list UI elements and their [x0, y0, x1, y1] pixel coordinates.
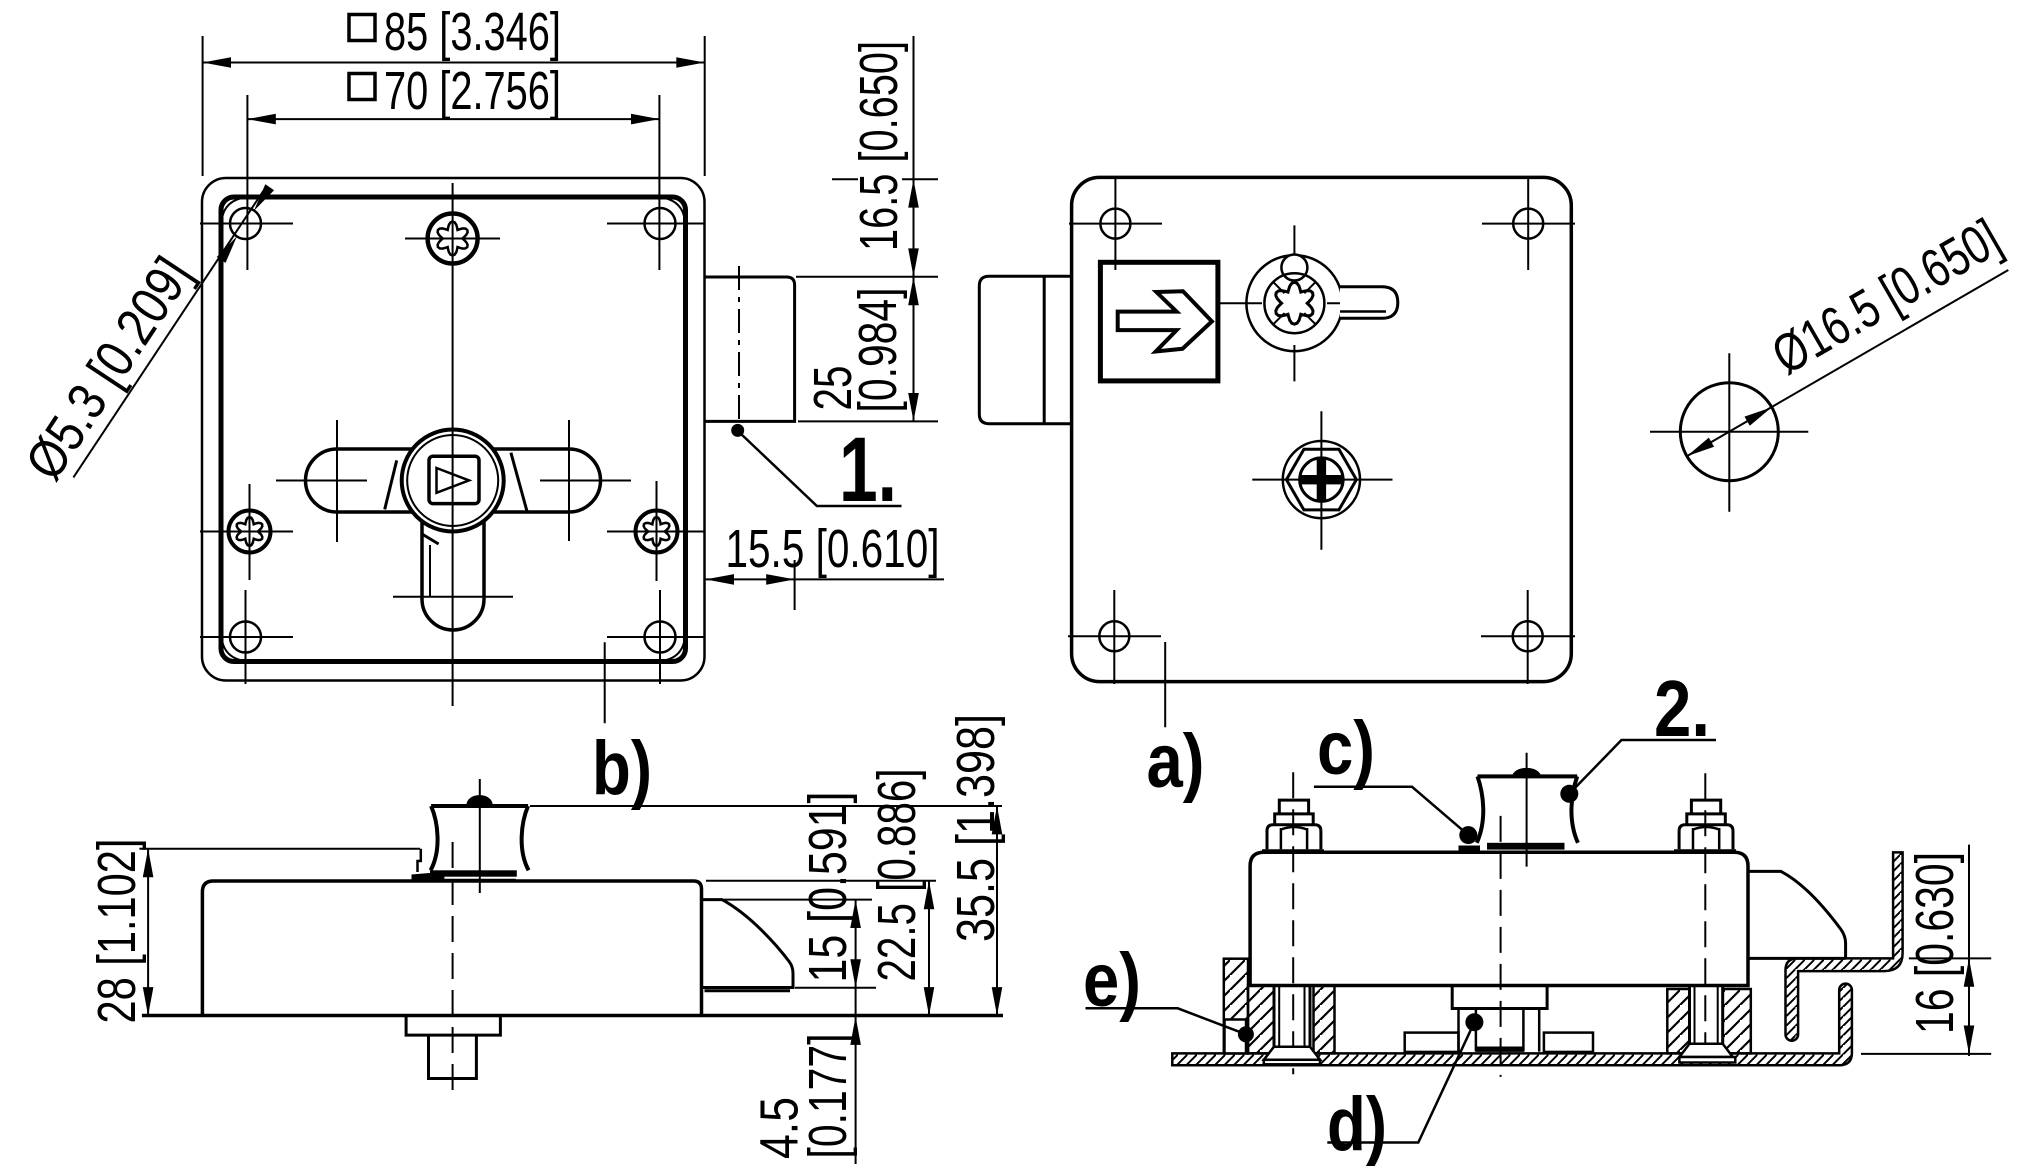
dimension 5.3 leader [73, 184, 274, 477]
dimension 35.5 text [946, 714, 1006, 942]
dimension 16.5 extension ticks [832, 178, 938, 180]
door sheet hatched [1786, 852, 1903, 1040]
rear corner hole top-left [1069, 177, 1162, 270]
svg-text:d): d) [1327, 1082, 1387, 1167]
bolt side profile [1748, 871, 1846, 958]
rear screw crosshair [1252, 411, 1392, 550]
drive shaft inner circle [407, 435, 498, 526]
svg-text:22.5 [0.886]: 22.5 [0.886] [867, 769, 927, 982]
dimension sq85 text [349, 2, 561, 62]
cylinder torx star [1274, 282, 1316, 324]
dimension 15.5 text [726, 519, 940, 579]
dimension sq85 extension lines [203, 36, 705, 176]
dimension [0.984] text [848, 288, 908, 413]
side bolt bottom extension [795, 987, 876, 989]
dimension 16.5 dia leader [1687, 270, 2009, 456]
retaining clip (e) white [1225, 1020, 1247, 1054]
label a leader [1164, 642, 1166, 727]
dimension 16 line [1964, 845, 1975, 1056]
svg-text:2.: 2. [1654, 664, 1710, 753]
vertical centerline [452, 183, 454, 706]
label e text [1083, 938, 1141, 1023]
cylinder inner circle [1264, 273, 1324, 333]
rear screw hex [1286, 449, 1356, 510]
side bolt top extension [724, 899, 872, 901]
dimension 35.5 line [992, 806, 1003, 1016]
dimension 16 text [1905, 852, 1965, 1034]
label a text [1147, 719, 1205, 804]
dimension 35.5 extension top [530, 805, 1002, 807]
housing body [1250, 852, 1748, 985]
svg-text:[0.177]: [0.177] [798, 1034, 858, 1159]
rear corner hole bottom-right [1481, 590, 1575, 684]
label d text [1327, 1082, 1387, 1167]
dimension 28 text [87, 839, 147, 1024]
label e leader [1086, 1008, 1254, 1042]
centre bracket (d) [1405, 986, 1593, 1052]
rear screw outer circle [1283, 441, 1360, 518]
knob spool section [1459, 768, 1578, 853]
svg-text:35.5 [1.398]: 35.5 [1.398] [946, 714, 1006, 942]
svg-text:15 [0.591]: 15 [0.591] [798, 792, 858, 983]
dimension 15 text [798, 792, 858, 983]
dimension sq85 line [203, 57, 705, 68]
svg-text:b): b) [592, 726, 652, 811]
left screw countersunk head [1264, 1047, 1320, 1065]
svg-text:70 [2.756]: 70 [2.756] [384, 61, 561, 121]
dimension 28 extension top [139, 848, 420, 850]
svg-text:[0.984]: [0.984] [848, 288, 908, 413]
corner hole top-left [200, 208, 293, 239]
knob axis solid [1526, 753, 1528, 867]
svg-text:85 [3.346]: 85 [3.346] [384, 2, 561, 62]
arrow direction square [1100, 262, 1218, 381]
label 1. leader [731, 424, 901, 506]
drive shaft outer circle [402, 430, 504, 532]
knob centerline [479, 779, 481, 893]
orientation triangle [437, 468, 470, 493]
rear body outline [1072, 177, 1572, 681]
spacer columns right screw hatched [1667, 989, 1750, 1053]
dimension 4.5 text [750, 1097, 810, 1159]
dimension sq70 extension lines (through top mounting holes) [247, 95, 659, 270]
dimension sq70 text [349, 61, 561, 121]
dimension 16 extension lines [1861, 958, 1991, 1054]
bottom stud collar [406, 1016, 500, 1036]
left nut stack [1262, 800, 1324, 851]
svg-text:a): a) [1147, 719, 1205, 804]
bolt centerline dash-dot [738, 266, 740, 436]
label 1. text [839, 419, 897, 521]
lever facet line right [511, 453, 527, 511]
cylinder crosshair [1218, 225, 1367, 381]
dimension 5.3 text [14, 247, 203, 490]
dimension 16.5 dia text [1762, 208, 2010, 386]
dimension 22.5 text [867, 769, 927, 982]
spacer sliver left hatched [1248, 986, 1274, 1054]
svg-text:e): e) [1083, 938, 1141, 1023]
rear corner hole top-right [1482, 177, 1575, 270]
corner hole bottom-right [607, 590, 705, 684]
cover plate inner outline [221, 197, 686, 662]
locking bolt (down) [393, 521, 513, 631]
torx screw lower-right [607, 481, 704, 581]
lever facet line left [385, 460, 397, 509]
knob spool outline [431, 806, 529, 870]
right screw countersunk head [1679, 1044, 1735, 1063]
svg-text:1.: 1. [839, 419, 897, 521]
right nut stack [1674, 800, 1736, 851]
spacer block left hatched [1224, 959, 1248, 1054]
svg-text:c): c) [1317, 706, 1375, 791]
lever end crosshair left [336, 420, 338, 542]
cylinder tab [1340, 287, 1398, 319]
left screw shaft [1274, 986, 1310, 1047]
dimension sq70 line [247, 114, 659, 125]
centerline over shaft [452, 429, 454, 533]
detail circle crosshair [1650, 353, 1808, 511]
dimension 22.5 extension top [706, 880, 936, 882]
stud centerline dashed [452, 842, 454, 1090]
knob top cap [467, 795, 493, 805]
corner hole bottom-left [200, 590, 293, 684]
label b leader [604, 642, 606, 723]
right screw shaft [1690, 986, 1723, 1044]
bottom stud [429, 1035, 477, 1078]
svg-text:28 [1.102]: 28 [1.102] [87, 839, 147, 1024]
right stud centerline dashed [1704, 773, 1706, 1066]
mounting plate hatched [1172, 984, 1852, 1066]
horizontal centerline segments [276, 480, 631, 482]
rear screw inner circle [1300, 458, 1343, 501]
torx screw top [405, 214, 500, 264]
bolt protruding left [979, 276, 1071, 423]
swing lever (bone) [306, 449, 601, 512]
arrow symbol [1118, 291, 1212, 351]
rear corner hole bottom-left [1068, 590, 1161, 684]
svg-text:15.5 [0.610]: 15.5 [0.610] [726, 519, 940, 579]
side body bottom edge [142, 1014, 1003, 1018]
torx screw lower-left [200, 484, 293, 580]
side bolt profile [702, 900, 794, 991]
corner hole top-right [607, 208, 705, 239]
dimension [0.177] text [798, 1034, 858, 1159]
knob centerline dashed [1500, 816, 1502, 1077]
dimension 16.5/25 shared line [908, 36, 919, 421]
dimension 28 line [143, 849, 154, 1016]
bolt protruding right [705, 277, 795, 421]
detail circle [1680, 383, 1778, 481]
retaining clip side [412, 849, 445, 882]
side body outline [202, 881, 701, 1016]
rear screw phillips cross [1301, 459, 1342, 500]
spacer column right of left screw [1314, 986, 1335, 1054]
dimension 15/4.5 shared line [850, 900, 861, 1164]
svg-text:16 [0.630]: 16 [0.630] [1905, 852, 1965, 1034]
dimension 22.5 line [924, 881, 935, 1016]
label d leader [1327, 1013, 1483, 1142]
left stud centerline dashed [1292, 772, 1294, 1074]
dimension 25 extension lines [796, 277, 938, 422]
knob flange [430, 870, 517, 880]
dimension 16.5 [0.650] text [849, 41, 909, 251]
label 2. leader [1560, 740, 1716, 803]
body outer outline [202, 178, 705, 681]
lock cylinder outer circle [1246, 255, 1342, 351]
svg-text:16.5 [0.650]: 16.5 [0.650] [849, 41, 909, 251]
label c leader [1314, 787, 1477, 844]
label b text [592, 726, 652, 811]
cover plate corner bend arcs [223, 199, 685, 661]
cylinder small top circle [1281, 255, 1307, 281]
dimension 25 text [803, 366, 863, 411]
lever end crosshair right [568, 420, 570, 541]
square spindle hole [429, 456, 479, 503]
label c text [1317, 706, 1375, 791]
label 2. text [1654, 664, 1710, 753]
dimension 15.5 line [706, 560, 944, 610]
